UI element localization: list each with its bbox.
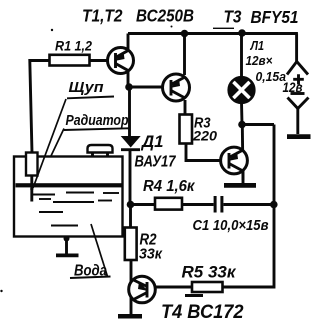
svg-text:R1 1,2: R1 1,2 [55,38,92,54]
svg-text:Т1,Т2: Т1,Т2 [82,6,123,26]
svg-text:С1 10,0×15в: С1 10,0×15в [193,218,269,234]
svg-text:R4 1,6к: R4 1,6к [143,178,196,195]
svg-text:Радиатор: Радиатор [66,112,129,129]
svg-text:33к: 33к [139,246,163,263]
svg-text:Т3: Т3 [224,7,242,27]
svg-text:220: 220 [192,128,217,144]
svg-text:ВС250В: ВС250В [136,6,194,26]
svg-text:0,15а: 0,15а [256,69,287,84]
svg-text:R5 33к: R5 33к [182,263,237,282]
svg-text:BFY51: BFY51 [251,7,299,27]
svg-text:Т4 ВС172: Т4 ВС172 [161,301,244,323]
svg-text:Щуп: Щуп [69,79,104,96]
svg-text:Вода: Вода [74,263,107,280]
svg-text:12в×: 12в× [246,53,273,68]
svg-text:Д1: Д1 [140,132,163,151]
svg-text:ВАУ17: ВАУ17 [135,154,177,171]
svg-text:Л1: Л1 [250,39,264,53]
svg-text:12в: 12в [283,79,303,95]
